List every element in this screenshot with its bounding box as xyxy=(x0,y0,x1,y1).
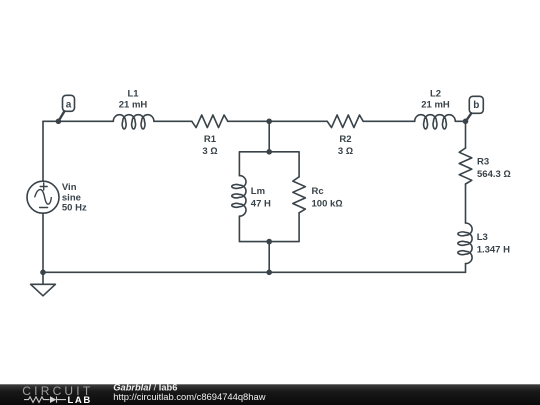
svg-text:L3: L3 xyxy=(477,232,488,243)
svg-text:3 Ω: 3 Ω xyxy=(202,146,217,157)
junction box top dot xyxy=(266,149,272,155)
junction ground dot xyxy=(40,270,46,276)
svg-text:R1: R1 xyxy=(204,134,217,145)
svg-text:Rc: Rc xyxy=(312,186,324,197)
svg-text:47 H: 47 H xyxy=(251,199,271,210)
Vin sine wave xyxy=(35,190,52,205)
voltage source Vin circle xyxy=(27,181,59,213)
resistor R2 xyxy=(327,115,363,128)
inductor L1 xyxy=(113,115,154,129)
logo resistor-diode squiggle xyxy=(24,396,66,402)
svg-text:3 Ω: 3 Ω xyxy=(338,146,353,157)
resistor R3 xyxy=(459,148,472,184)
resistor Rc xyxy=(293,177,306,213)
junction node b dot xyxy=(463,119,469,125)
wire right vertical xyxy=(465,121,467,272)
svg-text:b: b xyxy=(473,100,479,111)
svg-text:sine: sine xyxy=(62,192,81,203)
logo diode triangle xyxy=(50,396,56,403)
wire left vertical xyxy=(42,121,44,272)
ground xyxy=(31,284,56,296)
svg-text:21 mH: 21 mH xyxy=(119,100,148,111)
wire L2 to node b corner xyxy=(455,120,465,122)
svg-text:R3: R3 xyxy=(477,156,489,167)
junction box bottom dot xyxy=(266,239,272,245)
svg-text:1.347 H: 1.347 H xyxy=(477,245,510,256)
wire middle branch vertical top xyxy=(268,121,270,152)
wire top-left segment xyxy=(43,120,113,122)
resistor R1 xyxy=(192,115,228,128)
svg-text:L2: L2 xyxy=(430,88,441,99)
svg-text:http://circuitlab.com/c8694744: http://circuitlab.com/c8694744q8haw xyxy=(113,391,265,402)
wire between R1 and R2 xyxy=(228,120,327,122)
junction middle top dot xyxy=(266,119,272,125)
svg-text:21 mH: 21 mH xyxy=(421,100,450,111)
inductor L2 xyxy=(415,115,456,129)
svg-text:50 Hz: 50 Hz xyxy=(62,203,87,214)
node b box xyxy=(469,96,483,113)
wire between R2 and L2 xyxy=(363,120,415,122)
wire bottom xyxy=(43,271,466,273)
node a leader xyxy=(58,111,64,121)
svg-text:Lm: Lm xyxy=(251,186,265,197)
svg-text:LAB: LAB xyxy=(68,395,92,405)
node a box xyxy=(63,95,75,111)
node b leader xyxy=(466,113,472,121)
svg-text:a: a xyxy=(66,99,72,110)
wire between L1 and R1 xyxy=(154,120,192,122)
inductor L3 xyxy=(458,223,472,264)
inductor Lm xyxy=(232,176,246,217)
wire middle branch vertical bottom xyxy=(268,242,270,273)
Vin plus sign xyxy=(40,183,47,190)
junction bottom wire dot xyxy=(266,270,272,276)
wire middle branch box xyxy=(239,152,299,242)
svg-text:R2: R2 xyxy=(339,134,351,145)
svg-text:L1: L1 xyxy=(127,88,139,99)
svg-text:564.3 Ω: 564.3 Ω xyxy=(477,169,511,180)
ground stub xyxy=(42,272,44,284)
Vin minus sign xyxy=(40,207,48,209)
svg-text:100 kΩ: 100 kΩ xyxy=(312,199,343,210)
junction node a dot xyxy=(56,119,62,125)
